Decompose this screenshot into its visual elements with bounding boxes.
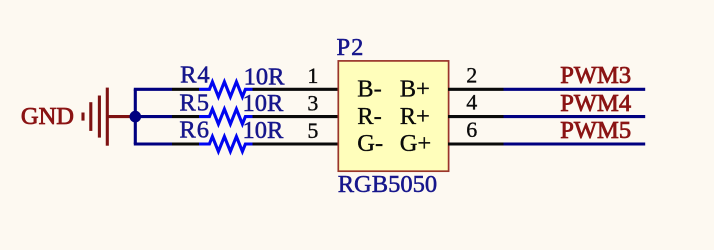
svg-text:GND: GND <box>21 103 74 130</box>
wire row3 left <box>134 142 172 145</box>
resistor R5 <box>172 109 339 124</box>
wire net PWM5 <box>504 142 646 145</box>
wire net PWM3 <box>504 88 646 91</box>
svg-text:R4: R4 <box>180 61 211 88</box>
svg-text:3: 3 <box>307 90 318 115</box>
svg-text:2: 2 <box>466 62 477 87</box>
wire vertical bus <box>134 89 137 144</box>
svg-text:1: 1 <box>307 63 318 88</box>
svg-text:PWM4: PWM4 <box>560 90 631 117</box>
svg-text:5: 5 <box>307 118 318 143</box>
resistor R6 <box>172 137 339 152</box>
svg-text:6: 6 <box>466 117 477 142</box>
svg-text:B+: B+ <box>400 75 430 102</box>
junction dot <box>130 111 142 123</box>
svg-text:PWM3: PWM3 <box>560 62 631 89</box>
svg-text:R5: R5 <box>179 90 210 117</box>
svg-text:R+: R+ <box>400 103 430 130</box>
wire net PWM4 <box>504 115 646 118</box>
svg-text:P2: P2 <box>337 34 365 61</box>
svg-text:G-: G- <box>357 130 383 157</box>
pin 2 (right row1) <box>448 88 504 91</box>
svg-text:R-: R- <box>357 103 382 130</box>
svg-text:4: 4 <box>466 90 477 115</box>
pin 6 (right row3) <box>448 142 504 145</box>
svg-text:10R: 10R <box>243 90 285 117</box>
svg-text:G+: G+ <box>400 130 432 157</box>
svg-text:10R: 10R <box>243 117 285 144</box>
wire row2 left <box>135 115 172 118</box>
ground symbol <box>83 88 131 146</box>
pin 4 (right row2) <box>448 115 504 118</box>
connector P2 box <box>338 61 448 171</box>
svg-text:PWM5: PWM5 <box>560 117 631 144</box>
svg-text:RGB5050: RGB5050 <box>338 171 437 198</box>
svg-text:B-: B- <box>357 75 382 102</box>
resistor R4 <box>172 82 339 97</box>
wire row1 left <box>134 88 172 91</box>
svg-text:10R: 10R <box>244 64 286 91</box>
svg-text:R6: R6 <box>179 117 210 144</box>
